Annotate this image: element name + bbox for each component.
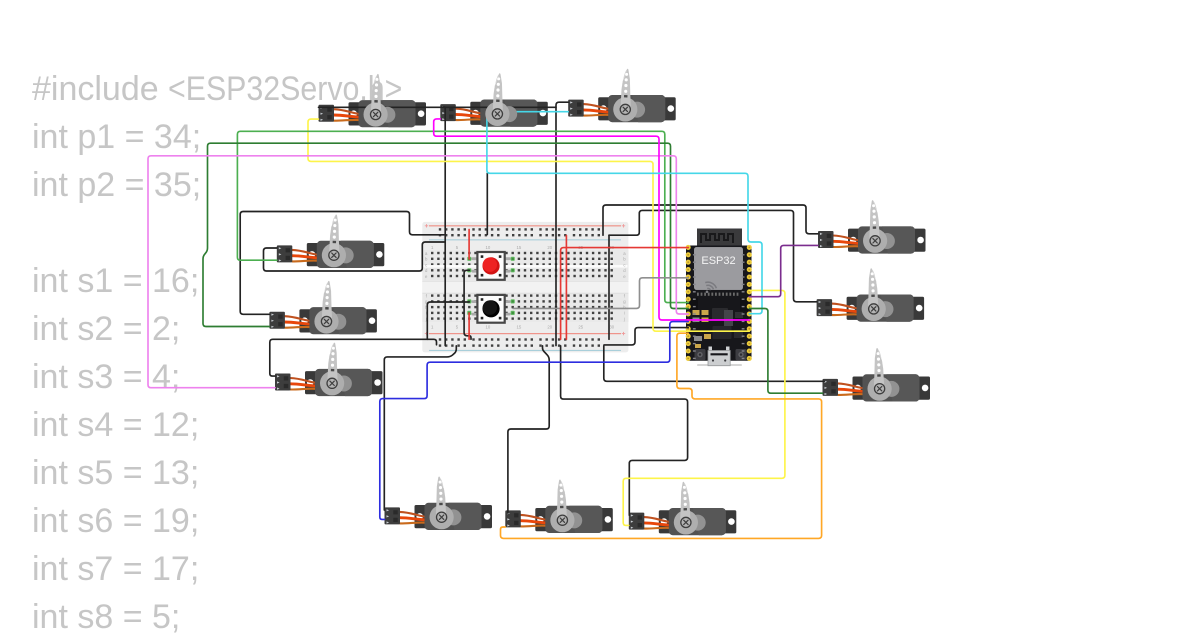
svg-text:i: i — [624, 311, 625, 316]
svg-text:25: 25 — [578, 325, 583, 330]
svg-text:j: j — [623, 316, 625, 321]
svg-text:10: 10 — [486, 325, 491, 330]
svg-text:20: 20 — [547, 325, 552, 330]
svg-text:j: j — [425, 316, 427, 321]
svg-text:15: 15 — [516, 245, 521, 250]
svg-text:20: 20 — [547, 245, 552, 250]
svg-text:ESP32: ESP32 — [701, 255, 735, 267]
svg-text:10: 10 — [486, 245, 491, 250]
svg-text:30: 30 — [609, 325, 614, 330]
svg-text:15: 15 — [516, 325, 521, 330]
